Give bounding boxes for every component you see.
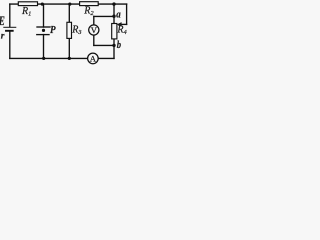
svg-text:a: a [116,9,121,21]
svg-text:b: b [117,40,121,51]
svg-text:A: A [90,53,97,63]
svg-text:P: P [50,24,56,36]
svg-text:E: E [0,14,5,28]
svg-text:V: V [91,25,98,35]
svg-text:r: r [1,31,5,42]
